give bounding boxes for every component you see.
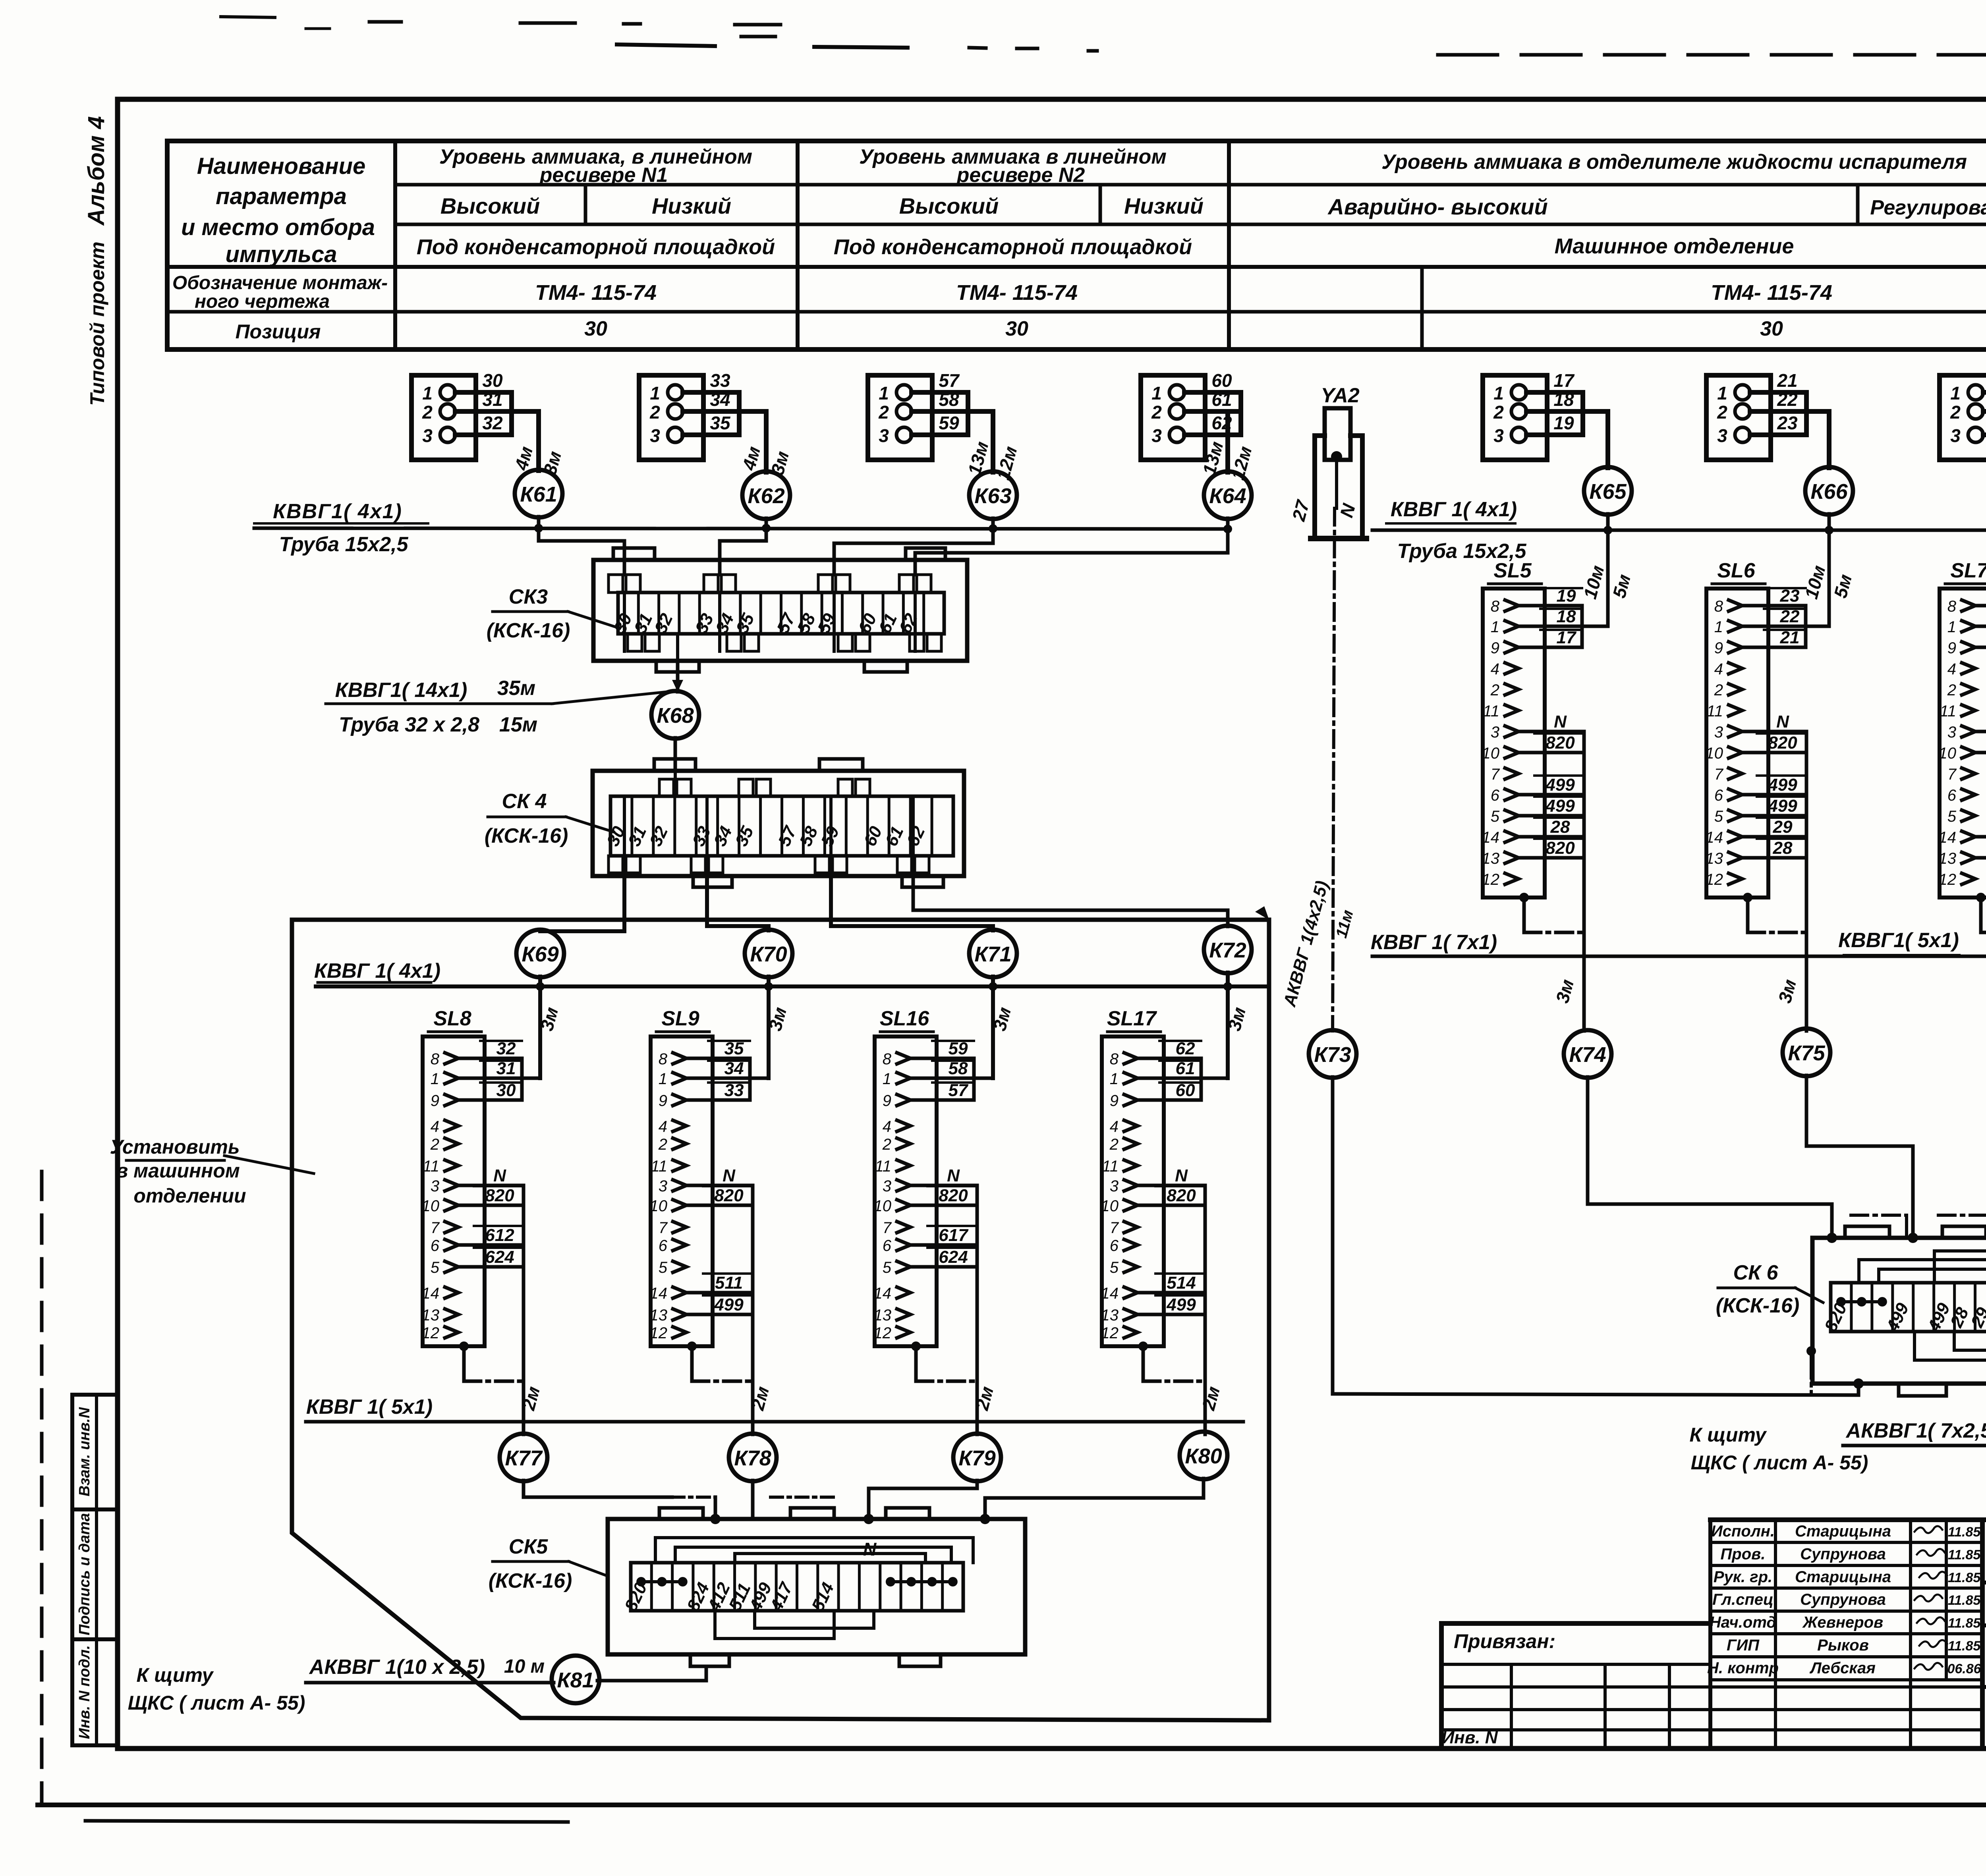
svg-text:9: 9 — [883, 1092, 891, 1110]
cable marker К66 — [1805, 467, 1853, 515]
svg-text:Супрунова: Супрунова — [1800, 1591, 1886, 1608]
svg-text:8: 8 — [1110, 1050, 1119, 1068]
wire bundle 30-32 from X1 — [455, 370, 539, 471]
svg-text:5: 5 — [431, 1259, 440, 1276]
svg-text:ного чертежа: ного чертежа — [195, 291, 330, 312]
cable length labels 4м/3м — [738, 444, 793, 477]
svg-text:7: 7 — [1947, 766, 1957, 783]
svg-text:1: 1 — [1493, 383, 1504, 403]
svg-text:К щиту: К щиту — [137, 1664, 214, 1686]
shield dash-dot stubs above CK6 — [1851, 1215, 1986, 1238]
svg-text:ЩКС ( лист А- 55): ЩКС ( лист А- 55) — [1691, 1451, 1868, 1474]
wire CK3 to K68 — [672, 661, 683, 692]
svg-text:11: 11 — [651, 1158, 667, 1175]
svg-text:1: 1 — [431, 1070, 439, 1088]
svg-text:4: 4 — [1714, 660, 1723, 678]
cable marker K81 — [552, 1656, 599, 1703]
CK5 outer top tabs — [659, 1508, 929, 1519]
svg-text:13: 13 — [650, 1307, 668, 1324]
svg-text:5: 5 — [1491, 808, 1500, 825]
svg-text:Инв. N: Инв. N — [1441, 1728, 1498, 1747]
svg-text:12: 12 — [1939, 871, 1957, 888]
svg-text:1: 1 — [659, 1070, 667, 1088]
svg-text:К69: К69 — [522, 942, 558, 966]
svg-text:10: 10 — [874, 1197, 892, 1215]
svg-text:11.85: 11.85 — [1948, 1547, 1981, 1562]
svg-text:импульса: импульса — [225, 241, 337, 267]
shield wire from SL9 bottom — [687, 1341, 753, 1381]
svg-text:21: 21 — [1777, 370, 1797, 391]
svg-text:10: 10 — [1101, 1197, 1119, 1215]
svg-text:820: 820 — [1546, 838, 1575, 858]
svg-text:6: 6 — [659, 1237, 668, 1255]
wire bundle from SL8 pins 8,1,9 — [458, 1039, 540, 1100]
connector SL6 — [1706, 559, 1769, 897]
svg-text:К74: К74 — [1569, 1043, 1606, 1067]
bus wires from SL16 (N,820,...) — [910, 1166, 977, 1434]
svg-text:30: 30 — [1760, 317, 1783, 340]
svg-text:Типовой проект: Типовой проект — [86, 241, 108, 405]
CK5 outer bottom tabs — [690, 1654, 941, 1666]
wire K75 to CK6 — [1806, 1075, 1918, 1243]
cable marker K75 — [1783, 1029, 1830, 1076]
label 27 at YA2 — [1288, 497, 1314, 523]
bus wires from SL7 (N,820,...) — [1975, 712, 1986, 1031]
svg-text:612: 612 — [485, 1226, 514, 1245]
svg-text:SL7: SL7 — [1950, 559, 1986, 582]
svg-text:820: 820 — [485, 1186, 514, 1205]
svg-text:499: 499 — [1768, 775, 1797, 795]
svg-text:11.85: 11.85 — [1948, 1616, 1981, 1631]
svg-text:3: 3 — [1717, 425, 1727, 446]
svg-text:2: 2 — [1109, 1136, 1119, 1153]
svg-text:Позиция: Позиция — [236, 320, 321, 343]
cable length labels 4м/3м — [510, 444, 565, 477]
svg-text:30: 30 — [482, 370, 503, 391]
svg-text:2: 2 — [422, 402, 433, 423]
svg-text:6: 6 — [1491, 787, 1500, 804]
svg-text:Под конденсаторной площадкой: Под конденсаторной площадкой — [417, 235, 775, 259]
svg-text:11: 11 — [875, 1158, 891, 1175]
wire bundle from SL17 pins 8,1,9 — [1138, 1039, 1228, 1100]
svg-text:58: 58 — [939, 389, 959, 410]
margin stamp cell: Инв. N подл. — [72, 1639, 118, 1745]
wire K79 to CK5 — [771, 1480, 977, 1524]
svg-text:СК5: СК5 — [509, 1535, 549, 1558]
svg-text:13: 13 — [1101, 1307, 1119, 1324]
cable К82 АКВВГ1(7х2,5) 40м to panel — [1843, 1419, 1986, 1446]
svg-text:1: 1 — [422, 383, 433, 403]
svg-text:К70: К70 — [750, 942, 787, 966]
terminal block CK6 (КСК-16) — [1812, 1238, 1986, 1384]
svg-text:(КСК-16): (КСК-16) — [485, 824, 568, 847]
wire K77 to CK5 — [524, 1480, 721, 1524]
svg-text:SL6: SL6 — [1717, 559, 1755, 582]
cable run КВВГ1(5х1) bottom — [306, 1420, 1243, 1424]
svg-text:К72: К72 — [1209, 938, 1246, 962]
svg-text:3: 3 — [1714, 724, 1723, 741]
CK5 internal wire routing — [655, 1538, 973, 1639]
connector SL7 — [1939, 559, 1986, 897]
svg-text:61: 61 — [1211, 389, 1232, 410]
svg-text:624: 624 — [939, 1247, 968, 1267]
svg-text:33: 33 — [710, 370, 730, 391]
svg-text:5: 5 — [1110, 1259, 1119, 1276]
svg-text:2: 2 — [1493, 402, 1504, 423]
terminal box (X1) — [411, 375, 476, 460]
svg-text:Под конденсаторной площадкой: Под конденсаторной площадкой — [834, 235, 1192, 259]
svg-text:8: 8 — [659, 1050, 668, 1068]
wire CK5 to K81 — [597, 1666, 706, 1681]
wire stubs K65-K67 to cable — [1603, 513, 1986, 535]
wire bundle 57-59 from X3 — [912, 370, 993, 472]
svg-text:4: 4 — [883, 1118, 891, 1135]
svg-text:3: 3 — [879, 425, 889, 446]
svg-text:10 м: 10 м — [504, 1656, 545, 1677]
svg-text:35м: 35м — [497, 677, 535, 700]
svg-text:SL16: SL16 — [880, 1007, 929, 1030]
cable marker K80 — [1180, 1432, 1227, 1479]
svg-text:11: 11 — [1483, 703, 1499, 720]
svg-text:30: 30 — [584, 317, 607, 340]
personnel rows text — [1707, 1523, 1982, 1677]
CK3 entry tabs — [609, 575, 931, 593]
svg-text:12: 12 — [874, 1324, 892, 1342]
svg-text:7: 7 — [883, 1219, 892, 1237]
svg-text:ТМ4- 115-74: ТМ4- 115-74 — [535, 281, 657, 305]
svg-text:11.85: 11.85 — [1948, 1593, 1981, 1608]
connector SL17 — [1101, 1007, 1164, 1346]
svg-text:Лебская: Лебская — [1809, 1659, 1876, 1677]
svg-text:10: 10 — [422, 1197, 440, 1215]
svg-text:14: 14 — [1482, 829, 1500, 846]
row: Обозначение монтажного чертежа — [172, 272, 388, 312]
svg-text:13: 13 — [422, 1307, 440, 1324]
svg-text:9: 9 — [1491, 639, 1499, 657]
svg-text:499: 499 — [1545, 775, 1575, 795]
svg-text:3: 3 — [650, 425, 660, 446]
svg-text:11: 11 — [423, 1158, 439, 1175]
row: location — [417, 234, 1794, 259]
svg-text:YA2: YA2 — [1321, 384, 1359, 407]
svg-text:2: 2 — [882, 1136, 891, 1153]
svg-text:11: 11 — [1706, 703, 1723, 720]
svg-text:Установить: Установить — [110, 1136, 240, 1158]
svg-text:12: 12 — [422, 1324, 440, 1342]
svg-text:К63: К63 — [974, 484, 1011, 508]
svg-text:Супрунова: Супрунова — [1800, 1545, 1886, 1563]
svg-text:2: 2 — [1714, 681, 1723, 699]
svg-text:1: 1 — [650, 383, 660, 403]
svg-text:1: 1 — [1947, 618, 1956, 636]
svg-text:8: 8 — [1947, 598, 1957, 615]
svg-text:13: 13 — [1706, 850, 1723, 867]
cable length labels 13м/12м — [964, 439, 1021, 482]
CK6 outer top tabs — [1845, 1226, 1986, 1238]
svg-text:13: 13 — [1482, 850, 1500, 867]
terminal block CK4 (КСК-16) — [593, 759, 964, 876]
svg-text:К81: К81 — [557, 1668, 594, 1692]
dash-dot stub near CK6 bottom left — [1806, 1346, 1816, 1395]
bus wires from SL17 (N,820,...) — [1138, 1166, 1205, 1434]
svg-text:06.86: 06.86 — [1947, 1661, 1981, 1676]
cable marker K74 — [1564, 1030, 1611, 1078]
CK4 outer bottom tabs — [693, 876, 943, 887]
svg-text:11.85: 11.85 — [1948, 1570, 1981, 1585]
svg-text:59: 59 — [939, 413, 959, 433]
svg-text:820: 820 — [1167, 1186, 1196, 1205]
svg-text:АКВВГ 1(10 х 2,5): АКВВГ 1(10 х 2,5) — [309, 1656, 485, 1679]
svg-text:11: 11 — [1102, 1158, 1119, 1175]
svg-text:Низкий: Низкий — [652, 193, 731, 218]
cable run КВВГ 1(4х1) inside box — [316, 984, 1269, 988]
wire K68 to CK4 — [674, 738, 677, 771]
svg-text:Нач.отд: Нач.отд — [1710, 1614, 1776, 1631]
svg-text:КВВГ1( 4х1): КВВГ1( 4х1) — [273, 500, 402, 523]
cable К81 АКВВГ1(10х2,5) 10м to panel — [306, 1656, 554, 1683]
svg-text:2: 2 — [1717, 402, 1727, 423]
svg-text:SL17: SL17 — [1107, 1007, 1157, 1030]
svg-text:14: 14 — [874, 1285, 892, 1302]
note К щиту ЩКС (лист А-55) right — [1690, 1424, 1868, 1474]
svg-text:3: 3 — [1947, 724, 1956, 741]
svg-text:N: N — [1776, 712, 1789, 731]
svg-text:820: 820 — [714, 1186, 744, 1205]
CK4 internal through-wires — [624, 771, 913, 873]
cable marker K77 — [500, 1434, 547, 1481]
wire bundle from SL9 pins 8,1,9 — [686, 1039, 769, 1100]
cable run КВВГ1(4х1) Труба 15х2,5 (right) — [1372, 529, 1986, 532]
terminal box (X2) — [639, 375, 703, 460]
svg-text:3: 3 — [1950, 425, 1961, 446]
svg-text:6: 6 — [883, 1237, 892, 1255]
cable run КВВГ1(7х1) / КВВГ1(5х1) — [1372, 955, 1986, 958]
svg-text:60: 60 — [1211, 370, 1232, 391]
svg-text:31: 31 — [482, 389, 502, 410]
svg-text:ГИП: ГИП — [1727, 1637, 1760, 1654]
svg-text:2: 2 — [649, 402, 660, 423]
svg-text:499: 499 — [1545, 796, 1575, 816]
wire jog K63 to CK3 — [834, 528, 993, 575]
2м labels at crossings — [518, 1384, 1224, 1413]
svg-text:14: 14 — [422, 1285, 440, 1302]
margin label: Типовой проект — [86, 241, 108, 405]
svg-text:9: 9 — [1714, 639, 1723, 657]
svg-text:1: 1 — [1950, 383, 1961, 403]
svg-text:N: N — [947, 1166, 960, 1185]
cable label КВВГ1(14х1) 35м / Труба 32х2,8 15м — [326, 677, 667, 736]
cable marker К62 — [742, 471, 790, 519]
wire CK4 to K72 — [913, 873, 1228, 926]
terminal block CK5 (КСК-16) — [608, 1519, 1025, 1654]
svg-text:N: N — [1554, 712, 1567, 731]
svg-text:Наименование: Наименование — [197, 153, 365, 179]
svg-text:4: 4 — [1110, 1118, 1119, 1135]
svg-text:ЩКС ( лист А- 55): ЩКС ( лист А- 55) — [128, 1692, 305, 1714]
svg-text:499: 499 — [714, 1295, 744, 1314]
cable marker K70 — [745, 930, 792, 977]
svg-text:12: 12 — [650, 1324, 668, 1342]
svg-text:К80: К80 — [1185, 1444, 1222, 1468]
wire bundle from SL5 pins 8,1,9 — [1518, 586, 1608, 647]
shield wire from SL17 bottom — [1138, 1341, 1205, 1381]
svg-text:N: N — [493, 1166, 506, 1185]
svg-text:5: 5 — [883, 1259, 892, 1276]
cable label КВВГ1( 5х1) — [1838, 929, 1960, 954]
svg-text:820: 820 — [939, 1186, 968, 1205]
shield wire from SL8 bottom — [459, 1341, 524, 1381]
svg-text:8: 8 — [1714, 598, 1723, 615]
svg-text:9: 9 — [659, 1092, 667, 1110]
svg-text:9: 9 — [1947, 639, 1956, 657]
svg-text:9: 9 — [431, 1092, 439, 1110]
svg-text:2: 2 — [1947, 681, 1956, 699]
svg-text:35: 35 — [710, 413, 731, 433]
svg-text:17: 17 — [1553, 370, 1575, 391]
wire CK4 to K71 — [831, 873, 993, 930]
svg-text:11.85: 11.85 — [1948, 1525, 1981, 1540]
svg-text:Рук. гр.: Рук. гр. — [1714, 1568, 1772, 1586]
title block frame — [1441, 1520, 1986, 1749]
scan artifact dashes top — [221, 17, 1097, 51]
note: Установить в машинном отделении — [110, 1136, 314, 1207]
svg-text:1: 1 — [879, 383, 889, 403]
svg-text:Высокий: Высокий — [440, 193, 540, 218]
svg-text:Низкий: Низкий — [1124, 193, 1204, 218]
svg-text:12: 12 — [1706, 871, 1723, 888]
svg-text:12: 12 — [1482, 871, 1500, 888]
svg-text:Привязан:: Привязан: — [1454, 1630, 1555, 1652]
svg-text:2: 2 — [1151, 402, 1162, 423]
table header col1 — [181, 153, 375, 267]
svg-text:19: 19 — [1553, 413, 1574, 433]
svg-text:Труба 32 х 2,8: Труба 32 х 2,8 — [339, 713, 479, 736]
cable marker K69 — [516, 930, 564, 977]
CK6 outer bottom tabs — [1899, 1384, 1986, 1396]
svg-text:Старицына: Старицына — [1795, 1523, 1891, 1540]
bus wires from SL9 (N,820,...) — [686, 1166, 753, 1434]
svg-text:10: 10 — [1706, 745, 1723, 762]
wire jog K61 to CK3 — [539, 528, 624, 575]
svg-text:12: 12 — [1101, 1324, 1119, 1342]
svg-text:К75: К75 — [1788, 1041, 1825, 1065]
svg-text:Взам. инв.N: Взам. инв.N — [76, 1407, 93, 1496]
svg-text:Рыков: Рыков — [1817, 1637, 1869, 1654]
cable marker K72 — [1204, 926, 1252, 973]
svg-text:14: 14 — [1101, 1285, 1119, 1302]
CK4 entry tabs top — [659, 779, 870, 796]
svg-text:3: 3 — [883, 1177, 891, 1195]
svg-text:КВВГ1( 5х1): КВВГ1( 5х1) — [1838, 929, 1959, 952]
wire bundle 17-19 from X5 — [1526, 370, 1608, 468]
svg-text:1: 1 — [1151, 383, 1162, 403]
svg-text:КВВГ 1( 5х1): КВВГ 1( 5х1) — [306, 1395, 433, 1419]
svg-text:СК 4: СК 4 — [502, 790, 547, 813]
bus crossings with 3м labels — [1552, 977, 1986, 1005]
svg-text:499: 499 — [1768, 796, 1797, 816]
label СК4 (КСК-16) — [485, 790, 614, 847]
svg-text:N: N — [1175, 1166, 1188, 1185]
svg-text:КВВГ 1( 7х1): КВВГ 1( 7х1) — [1371, 931, 1497, 954]
svg-text:514: 514 — [1167, 1273, 1196, 1293]
svg-text:К73: К73 — [1314, 1043, 1351, 1067]
svg-text:Уровень аммиака в отделит: Уровень аммиака в отделителе жидкости ис… — [1381, 151, 1967, 174]
svg-text:Инв. N подл.: Инв. N подл. — [76, 1645, 93, 1739]
svg-text:3: 3 — [1151, 425, 1162, 446]
wire CK4 to K70 — [707, 873, 769, 930]
svg-text:617: 617 — [939, 1226, 969, 1245]
wire jog K62 to CK3 — [720, 528, 766, 575]
label СК6 (КСК-16) — [1716, 1261, 1823, 1317]
svg-text:ТМ4- 115-74: ТМ4- 115-74 — [956, 281, 1078, 305]
svg-text:4: 4 — [431, 1118, 439, 1135]
svg-text:N: N — [863, 1539, 877, 1559]
svg-text:К66: К66 — [1810, 480, 1848, 504]
svg-text:К71: К71 — [974, 942, 1011, 966]
margin label: Альбом 4 — [83, 116, 109, 226]
wire dash-dot from YA2 down to K73 — [1333, 457, 1337, 1031]
svg-text:1: 1 — [1110, 1070, 1119, 1088]
svg-text:14: 14 — [1939, 829, 1957, 846]
CK4 exit tabs bottom — [609, 856, 929, 873]
svg-text:SL9: SL9 — [661, 1007, 699, 1030]
svg-text:К79: К79 — [958, 1446, 995, 1470]
cable label КВВГ 1(4х1) right — [1386, 498, 1517, 523]
page outer border bottom edge — [38, 1805, 1986, 1822]
page outer border top dashed edge — [1438, 53, 1986, 57]
page outer border left edge — [40, 1172, 44, 1805]
svg-text:параметра: параметра — [216, 183, 347, 209]
svg-text:2: 2 — [1490, 681, 1499, 699]
svg-text:(КСК-16): (КСК-16) — [489, 1569, 572, 1592]
Привязан cell — [1454, 1630, 1555, 1652]
terminal box (X5) — [1483, 375, 1547, 460]
shield wire from SL7 bottom — [1976, 893, 1986, 932]
svg-text:28: 28 — [1550, 817, 1570, 837]
svg-text:4: 4 — [1947, 660, 1956, 678]
wire jog K64 to CK3 — [915, 529, 1228, 575]
svg-text:КВВГ1( 14х1): КВВГ1( 14х1) — [335, 679, 468, 702]
connector SL9 — [650, 1007, 713, 1346]
connector SL16 — [874, 1007, 937, 1346]
wire K73 to CK6 bottom — [1333, 1077, 1864, 1395]
table header col3: level receiver N2 — [859, 145, 1167, 187]
svg-text:(КСК-16): (КСК-16) — [487, 619, 570, 642]
cable marker К65 — [1584, 467, 1632, 515]
shield wire from SL16 bottom — [911, 1341, 977, 1381]
svg-text:Гл.спец: Гл.спец — [1712, 1591, 1773, 1608]
svg-text:7: 7 — [659, 1219, 668, 1237]
svg-text:28: 28 — [1773, 838, 1793, 858]
svg-text:3: 3 — [431, 1177, 439, 1195]
wire stubs K61-K64 to cable — [534, 517, 1232, 533]
svg-text:5: 5 — [1714, 808, 1723, 825]
cable run КВВГ1(4х1) Труба 15х2,5 (left) — [254, 528, 1229, 529]
row: Позиция — [236, 317, 1783, 343]
drops cable to SL5-SL7 with 10м/5м labels — [1579, 530, 1634, 626]
svg-text:22: 22 — [1777, 389, 1798, 410]
svg-text:(КСК-16): (КСК-16) — [1716, 1294, 1800, 1317]
svg-text:23: 23 — [1777, 413, 1798, 433]
cable length labels 13м/12м — [1198, 439, 1256, 482]
svg-text:К61: К61 — [520, 483, 557, 506]
svg-text:14: 14 — [1706, 829, 1723, 846]
svg-text:1: 1 — [1717, 383, 1727, 403]
svg-text:8: 8 — [431, 1050, 440, 1068]
svg-text:КВВГ 1( 4х1): КВВГ 1( 4х1) — [1391, 498, 1517, 521]
bus wires from SL6 (N,820,...) — [1742, 712, 1806, 1031]
drops K69-K72 to SL8-SL17 with 3м labels — [536, 977, 562, 1078]
